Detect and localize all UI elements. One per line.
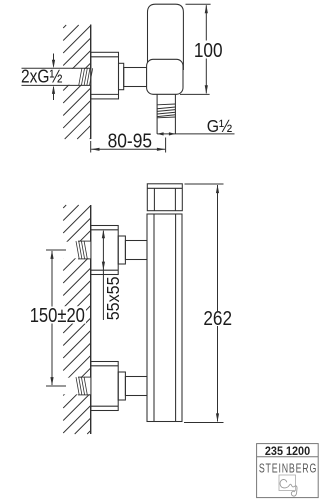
shower column bar xyxy=(147,214,182,422)
wall hatching (front view) xyxy=(63,205,90,434)
STEINBERG wordmark xyxy=(259,462,317,476)
title block frame xyxy=(257,444,319,498)
pipe hole in wall (top view) xyxy=(15,69,90,85)
thread nipple G1/2 through wall (top view) xyxy=(79,68,93,85)
pipe hole in wall xyxy=(40,378,90,395)
dimension 262 xyxy=(184,184,232,423)
svg-text:262: 262 xyxy=(203,307,232,330)
shower column top cap xyxy=(147,184,182,211)
wall line (top view) xyxy=(90,25,92,140)
union stem xyxy=(125,377,147,396)
wall escutcheon (top view) xyxy=(91,52,119,99)
Steinberg logo swirl xyxy=(280,480,297,497)
pipe hole in wall xyxy=(40,242,90,259)
wall hatching (top view) xyxy=(63,25,90,139)
handle lever (top view) xyxy=(148,4,184,70)
connection stem (top view) xyxy=(124,68,147,87)
collar (top view) xyxy=(119,63,124,89)
union collar xyxy=(118,372,125,400)
svg-text:100: 100 xyxy=(194,39,223,62)
dimension 55x55 xyxy=(102,230,123,321)
mixer body (top view) xyxy=(147,59,183,94)
svg-text:235 1200: 235 1200 xyxy=(265,445,310,457)
part number 235 1200 xyxy=(265,445,310,457)
union collar xyxy=(118,236,125,264)
svg-text:55x55: 55x55 xyxy=(103,276,123,320)
svg-text:STEINBERG: STEINBERG xyxy=(259,462,317,476)
union stem xyxy=(125,241,147,260)
label G1/2 (outlet) with leader xyxy=(157,116,234,136)
label 2xG1/2 xyxy=(21,66,62,87)
union escutcheon xyxy=(91,362,119,411)
dimension 150 plus-minus 20 xyxy=(28,250,86,386)
union thread nipple xyxy=(76,241,90,259)
svg-text:80-95: 80-95 xyxy=(108,129,152,151)
svg-text:2xG½: 2xG½ xyxy=(21,66,62,87)
union thread nipple xyxy=(76,377,90,395)
union escutcheon xyxy=(91,226,119,275)
svg-text:G½: G½ xyxy=(207,116,233,136)
extension lines for 2xG1/2 thread xyxy=(22,68,91,85)
Steinberg logo emblem square xyxy=(279,475,296,491)
arrows for 2xG1/2 xyxy=(52,54,55,101)
wall line (front view) xyxy=(90,205,92,434)
outlet thread G1/2 xyxy=(157,104,175,118)
outlet pipe (top view) xyxy=(157,94,175,134)
dimension 100 xyxy=(180,4,223,94)
svg-text:150±20: 150±20 xyxy=(30,304,85,327)
dimension 80-95 xyxy=(91,129,166,152)
